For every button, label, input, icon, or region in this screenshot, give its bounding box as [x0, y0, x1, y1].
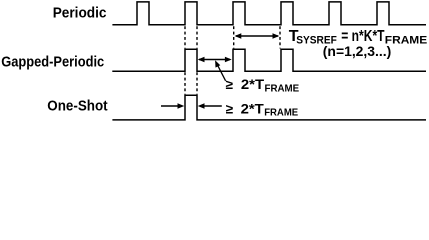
svg-text:Periodic: Periodic [53, 6, 107, 22]
arrow one-shot left (points right at rising edge) [161, 103, 184, 108]
svg-text:2*T: 2*T [241, 101, 265, 116]
wire dashed tick under pulse 3 (x=233.7) [233, 26, 235, 48]
svg-text:(n=1,2,3...): (n=1,2,3...) [323, 44, 392, 59]
svg-text:≥: ≥ [226, 77, 234, 92]
wire One-Shot waveform [112, 95, 426, 120]
svg-text:2*T: 2*T [241, 77, 265, 92]
wire Gapped-Periodic waveform [112, 49, 426, 71]
wire dashed extension left (x=185) [184, 26, 186, 94]
wire dashed extension right (x=197) [196, 26, 198, 94]
svg-text:Gapped-Periodic: Gapped-Periodic [1, 55, 104, 71]
wire dashed tick under pulse 4 (x=280) [279, 26, 281, 48]
svg-text:One-Shot: One-Shot [47, 99, 107, 115]
wire Periodic waveform [112, 2, 426, 25]
svg-text:FRAME: FRAME [265, 82, 300, 94]
arrow gap spacing (double-headed) [198, 57, 232, 62]
svg-text:≥: ≥ [226, 101, 234, 116]
svg-text:= n*K*T: = n*K*T [341, 28, 384, 45]
arrow Tsysref period (double-headed) [235, 33, 280, 38]
svg-text:FRAME: FRAME [264, 107, 298, 119]
arrow diagonal pointer to gap arrow [215, 60, 226, 81]
arrow one-shot right (points left at falling edge) [198, 103, 222, 108]
